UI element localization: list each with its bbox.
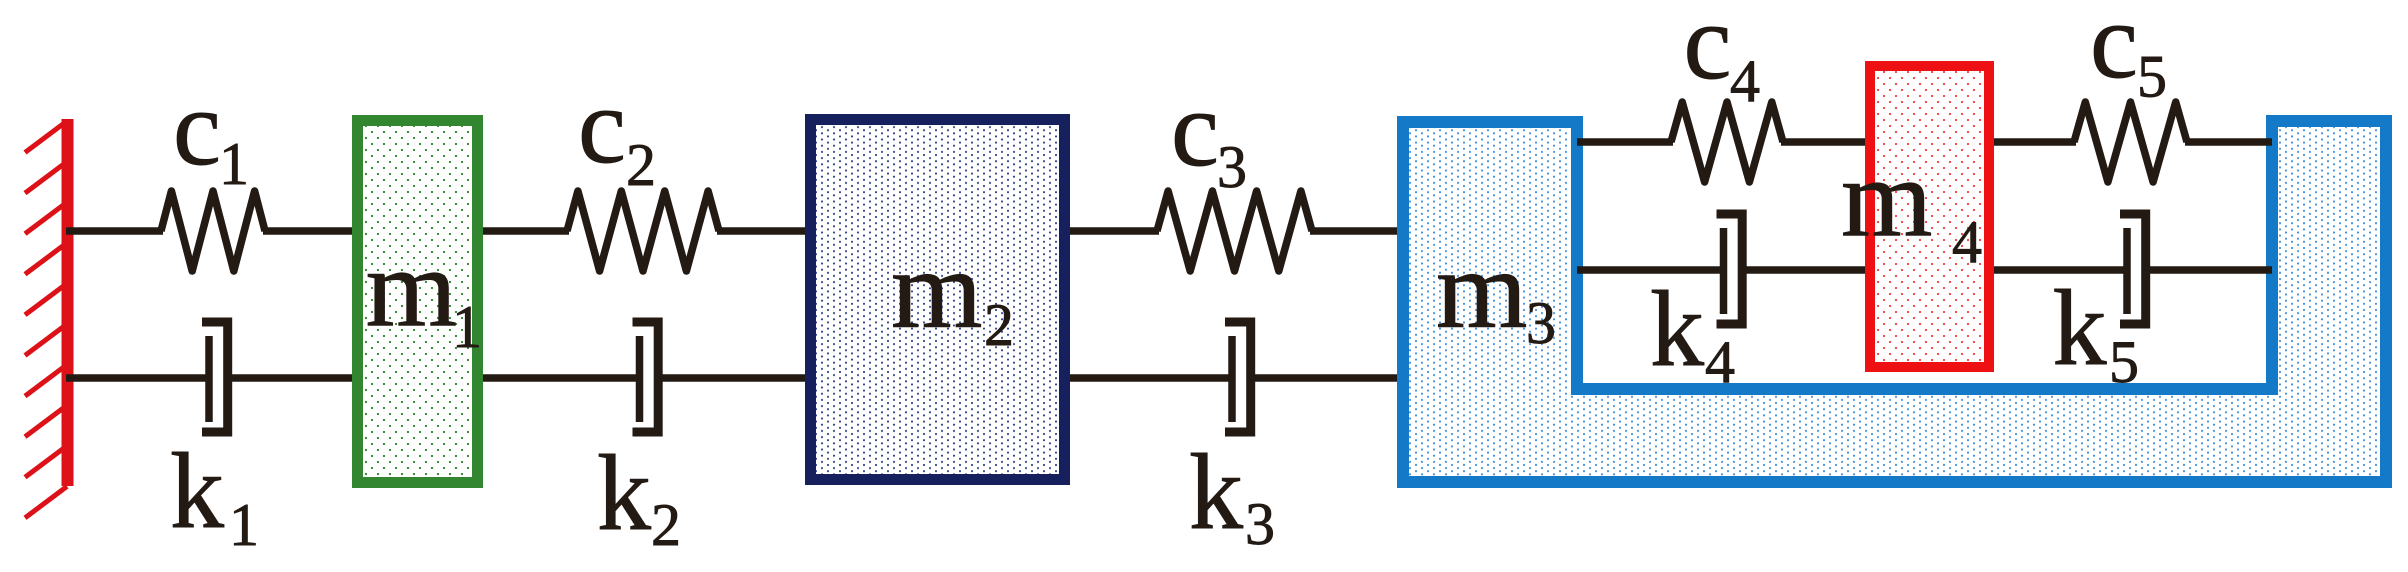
damper k5 — [2120, 214, 2146, 324]
wire spring c5 to m3 right column — [2185, 138, 2272, 146]
svg-text:5: 5 — [2109, 329, 2139, 395]
svg-text:4: 4 — [1730, 48, 1760, 114]
wire m3 to damper k4 — [1577, 266, 1723, 274]
damper k4 — [1717, 214, 1743, 324]
label k5 — [2053, 269, 2140, 395]
svg-text:c: c — [2090, 0, 2138, 101]
label k1 — [170, 432, 259, 558]
svg-text:m: m — [1841, 138, 1933, 261]
wire damper k3 to mass m3 — [1250, 374, 1401, 382]
wire mass m2 to spring c3 — [1066, 227, 1159, 235]
svg-text:c: c — [1171, 70, 1219, 189]
svg-text:3: 3 — [1217, 134, 1247, 200]
svg-text:k: k — [597, 434, 651, 553]
svg-text:c: c — [1684, 0, 1732, 102]
label c3 — [1171, 70, 1247, 200]
svg-text:2: 2 — [651, 492, 681, 558]
label m2 — [891, 229, 1014, 358]
wire spring c1 to mass m1 — [263, 227, 356, 235]
svg-text:k: k — [170, 432, 224, 551]
svg-text:4: 4 — [1705, 329, 1735, 395]
label c4 — [1684, 0, 1761, 114]
svg-text:2: 2 — [626, 132, 656, 198]
svg-text:2: 2 — [984, 292, 1014, 358]
wire mass m1 to damper k2 — [479, 374, 639, 382]
svg-text:m: m — [366, 228, 458, 351]
svg-text:m: m — [891, 229, 983, 352]
svg-text:1: 1 — [219, 131, 249, 197]
svg-text:k: k — [2053, 269, 2107, 388]
spring c2 — [567, 191, 719, 271]
label m1 — [366, 228, 482, 361]
svg-text:4: 4 — [1952, 209, 1982, 275]
label m4 — [1841, 138, 1982, 276]
wire damper k2 to mass m2 — [657, 374, 809, 382]
label k4 — [1650, 270, 1735, 395]
mass m1 (green block) — [358, 121, 478, 483]
svg-text:3: 3 — [1245, 491, 1275, 557]
label k3 — [1189, 433, 1275, 557]
spring c4 — [1671, 102, 1783, 182]
wire mass m4 to damper k5 — [1989, 266, 2127, 274]
label c5 — [2090, 0, 2167, 110]
svg-text:1: 1 — [229, 492, 259, 558]
svg-text:k: k — [1650, 270, 1704, 389]
wire m3 to spring c4 — [1577, 138, 1673, 146]
wire wall to damper k1 — [66, 374, 209, 382]
mass m4 (red block) — [1870, 66, 1989, 367]
label m3 — [1436, 229, 1556, 356]
damper k1 — [202, 322, 228, 432]
wire damper k5 to m3 right column — [2144, 266, 2272, 274]
spring c3 — [1157, 191, 1312, 271]
ground wall (fixed support, red hatched) — [25, 119, 68, 518]
wire damper k1 to mass m1 — [227, 374, 356, 382]
wire mass m2 to damper k3 — [1066, 374, 1232, 382]
wire spring c2 to mass m2 — [717, 227, 809, 235]
svg-text:3: 3 — [1526, 290, 1556, 356]
wire mass m4 to spring c5 — [1989, 138, 2076, 146]
damper k3 — [1225, 322, 1251, 432]
label c2 — [578, 67, 656, 198]
mass m2 (navy block) — [811, 120, 1065, 480]
svg-text:k: k — [1189, 433, 1243, 552]
mass m3 (blue U-shaped carriage) — [1403, 121, 2386, 482]
label k2 — [597, 434, 681, 558]
svg-text:c: c — [173, 69, 221, 188]
svg-text:m: m — [1436, 229, 1528, 352]
svg-text:5: 5 — [2137, 44, 2167, 110]
svg-text:c: c — [578, 67, 626, 186]
label c1 — [173, 69, 249, 197]
spring c1 — [161, 191, 265, 271]
wire spring c4 to mass m4 — [1781, 138, 1868, 146]
wire wall to spring c1 — [66, 227, 163, 235]
damper k2 — [633, 322, 659, 432]
spring c5 — [2074, 102, 2187, 182]
wire spring c3 to mass m3 — [1310, 227, 1401, 235]
svg-text:1: 1 — [452, 294, 482, 360]
wire damper k4 to mass m4 — [1741, 266, 1868, 274]
wire mass m1 to spring c2 — [479, 227, 569, 235]
